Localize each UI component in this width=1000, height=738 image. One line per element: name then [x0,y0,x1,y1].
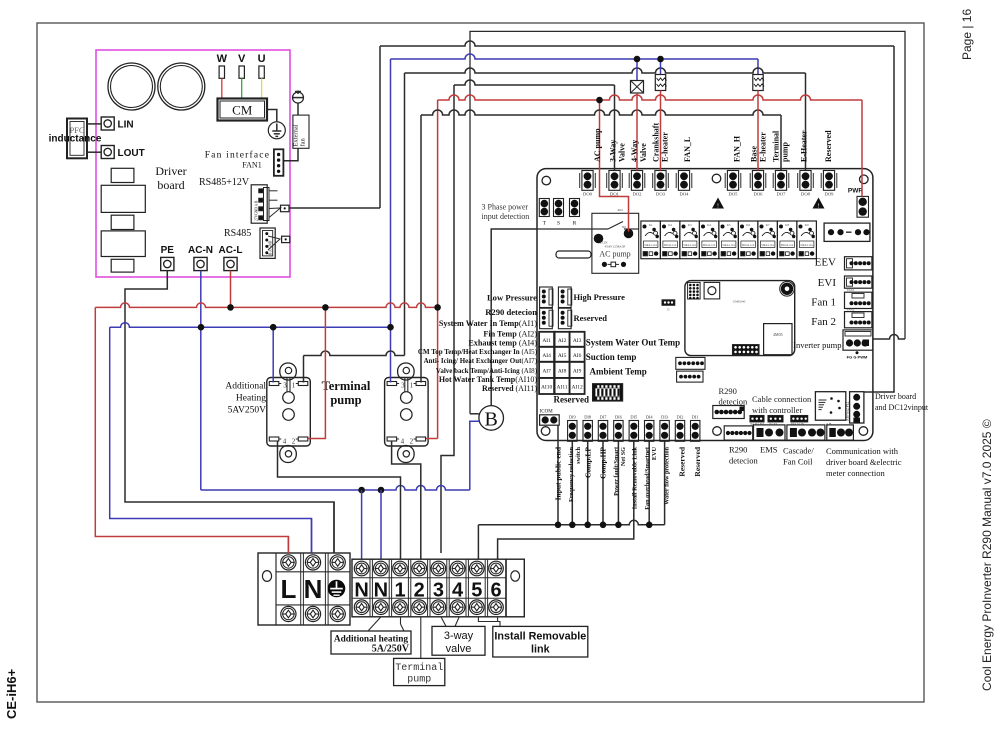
svg-text:U: U [258,53,266,65]
svg-text:K2: K2 [668,223,672,227]
svg-text:EVU: EVU [651,446,658,460]
wire blue into N [311,519,313,554]
live bus red [95,303,437,308]
heater coil base [753,75,763,91]
svg-text:Fan 2: Fan 2 [811,316,836,328]
svg-text:AI7: AI7 [542,368,551,374]
svg-text:Cool Energy ProInverter R290 M: Cool Energy ProInverter R290 Manual v7.0… [980,419,994,691]
solenoid valve symbol 4-way [631,81,644,94]
svg-text:driver board &electric: driver board &electric [826,457,902,467]
svg-text:Fan overhead/Smartnet: Fan overhead/Smartnet [644,446,651,510]
svg-text:AI3: AI3 [573,338,582,344]
svg-text:MRA4-12A: MRA4-12A [742,244,755,247]
Fan 2 connector [845,312,872,328]
ground symbol G1 [268,122,285,139]
EEV connector [845,257,872,270]
terminal L [281,555,296,570]
wire L3 blue valve feed [390,59,392,383]
svg-text:DO2: DO2 [633,192,643,197]
wire inverter pump link [873,335,905,340]
inverter pump connector [843,330,873,350]
svg-text:N: N [304,574,323,604]
svg-text:Terminal: Terminal [395,662,443,674]
EMS small connector [724,426,753,440]
svg-text:EEV: EEV [815,257,836,269]
svg-text:DI8: DI8 [584,415,592,420]
fan interface connector FAN1 [274,149,284,176]
fuse W [219,66,224,78]
svg-text:Inverter pump: Inverter pump [793,340,841,350]
leader line terminal pump [420,617,422,659]
leader lines install removable link [478,617,500,627]
wire node B to neutral blue [470,421,480,490]
R290 detection connector [540,308,553,329]
svg-text:Reserved: Reserved [554,395,590,405]
svg-text:Driver board: Driver board [875,392,916,401]
svg-text:EMS: EMS [760,445,778,455]
svg-text:Net SG: Net SG [620,447,627,466]
svg-text:Ambient Temp: Ambient Temp [590,367,647,377]
svg-text:Driver: Driver [155,164,186,178]
svg-text:LOUT: LOUT [118,148,145,159]
aux connector A2 [677,371,703,382]
wire L6 red live bus top [437,100,439,439]
svg-text:DI2: DI2 [677,415,684,420]
svg-text:switch: switch [575,446,582,463]
external fan earth screw symbol [293,92,304,103]
svg-text:MRA4-12A: MRA4-12A [781,244,794,247]
AI input terminal grid [539,332,554,347]
relay bank K1-K9 [641,221,661,259]
wire terminal pump pin4 to terminal 2 [392,441,421,559]
additional heating 5A/250V label box [331,631,411,654]
terminal LOUT [101,146,114,159]
fuse U [259,66,264,78]
MCU module box [685,281,795,356]
svg-text:meter connection: meter connection [826,468,886,478]
svg-text:4: 4 [283,438,287,446]
svg-text:1: 1 [292,382,296,390]
wire black into earth [333,502,335,553]
svg-text:AI1: AI1 [542,338,551,344]
svg-text:AI11: AI11 [557,384,568,390]
warning triangle 2 [813,198,825,209]
junction dots top bundle [634,56,641,63]
RS485 connector J2 [260,228,275,258]
compressor module CM [218,99,268,121]
svg-text:DI4: DI4 [646,415,654,420]
3-way valve label box [432,626,485,655]
wire N2 terminal blue [380,490,382,559]
svg-text:B: B [485,409,498,431]
MCU header 2x6 [733,345,760,355]
wire red into L [287,537,289,554]
svg-text:link: link [531,644,551,656]
svg-text:CM Top Temp/Heat Exchanger In: CM Top Temp/Heat Exchanger In (AI5) [418,348,538,356]
wire earth screw to external fan box [297,103,299,115]
svg-text:detecion: detecion [729,456,759,466]
svg-text:FAN_H: FAN_H [733,135,742,162]
svg-text:FAN1: FAN1 [847,288,855,292]
EVI connector [845,276,872,288]
tiny header H1 [750,415,764,422]
svg-text:K5: K5 [727,223,731,227]
wire base heater to DO6 red [757,91,759,171]
wire red to additional heating pin2 [308,307,325,438]
svg-text:Hot Water Tank Temp(AI10): Hot Water Tank Temp(AI10) [439,375,538,384]
install removable link wire to terminal 6 [498,441,634,559]
svg-text:Reserved: Reserved [574,313,608,323]
svg-text:2: 2 [410,438,414,446]
terminal block right end cap [506,559,524,617]
svg-text:Reserved: Reserved [824,130,833,162]
leader lines additional heating [368,617,381,631]
svg-text:Install Removable: Install Removable [494,631,586,643]
low voltage terminal block N N 1-6 [352,559,506,617]
svg-text:DO5: DO5 [729,192,739,197]
svg-text:EVI: EVI [818,277,837,289]
svg-text:MRA4-12A: MRA4-12A [800,244,813,247]
PWR connector [857,196,869,217]
svg-text:K9: K9 [805,223,809,227]
svg-text:Terminal: Terminal [772,130,781,162]
svg-text:4: 4 [401,438,405,446]
svg-text:AI6: AI6 [573,353,582,359]
svg-text:Cable connection: Cable connection [752,394,812,404]
svg-text:ICOM: ICOM [540,410,554,415]
svg-text:Comp.HP: Comp.HP [599,447,608,479]
EMS connector [754,425,786,440]
DI common bus to terminal 5 [664,441,666,525]
capacitor C1 [108,63,155,110]
svg-text:Additional: Additional [225,382,266,392]
svg-text:input detection: input detection [482,212,530,221]
svg-text:Valve: Valve [618,143,627,162]
svg-text:R: R [573,221,577,227]
heater coil crankshaft [655,75,665,91]
svg-text:5A/250V: 5A/250V [372,644,410,655]
RJ45 controller socket [815,392,845,421]
wire CM to ground [267,110,277,122]
svg-text:Input public end: Input public end [554,446,563,500]
svg-text:R290 detecion: R290 detecion [485,307,537,317]
cascade fan coil connector [787,425,825,440]
relay supply connector [824,223,870,241]
svg-text:Terminal: Terminal [322,379,371,393]
svg-text:AI8: AI8 [558,368,567,374]
svg-text:Install Removable Link: Install Removable Link [632,446,639,509]
svg-text:MRA4-12A: MRA4-12A [644,244,657,247]
svg-text:AC-N: AC-N [188,245,213,256]
neutral bus blue lower [201,486,470,490]
svg-text:AC pump: AC pump [593,128,602,162]
wire 4-way valve drop blue [636,59,638,81]
tiny header H2 [768,415,783,422]
3 phase input connector T [539,199,549,217]
wire L4 black E-heater to thermostat pin1 [303,356,305,383]
svg-text:AI9: AI9 [573,368,582,374]
thermostat terminal pump [398,363,415,380]
wire W to CM red [221,78,223,99]
svg-text:Low Pressure: Low Pressure [487,293,537,303]
svg-text:Fan 1: Fan 1 [811,297,836,309]
svg-text:FAN2: FAN2 [847,308,855,312]
wire neutral bus to N terminal [110,327,312,553]
AC pump switch [537,228,608,230]
svg-text:AI2: AI2 [558,338,567,344]
wire L5 black 3-way valve [441,85,454,553]
capacitor strip [556,251,591,258]
fuse V [239,66,244,78]
svg-text:RS485: RS485 [224,228,251,239]
svg-text:2: 2 [414,580,425,602]
svg-text:N: N [354,580,368,602]
svg-text:K6: K6 [746,223,750,227]
wire live bus to L terminal [95,307,288,553]
MCU buzzer [781,283,793,295]
RS485 out square [282,236,290,242]
svg-text:S: S [557,221,560,227]
svg-text:!: ! [818,204,820,210]
svg-text:Page | 16: Page | 16 [960,9,974,60]
terminal LIN [101,117,114,130]
transformer stack [111,168,134,182]
DIP switch [593,384,623,401]
svg-text:MRA4-12A: MRA4-12A [683,244,696,247]
svg-text:DI9: DI9 [569,415,577,420]
tiny header H3 [791,415,808,422]
svg-text:1: 1 [410,382,414,390]
svg-text:inductance: inductance [49,134,102,145]
svg-text:R290: R290 [729,445,747,455]
wire AC-N blue [200,271,202,490]
wire red AC pump feed [600,100,629,232]
svg-text:!: ! [717,204,719,210]
svg-text:R290: R290 [719,386,737,396]
AC pump indicator parts [602,262,607,267]
terminal earth [324,553,326,625]
node B junction [479,406,504,431]
svg-text:404: 404 [617,208,623,212]
R290 detection connector J6 [713,406,744,419]
capacitor C2 [158,63,205,110]
wire PE to earth terminal [125,271,334,553]
svg-text:and DC12vinput: and DC12vinput [875,403,929,412]
svg-text:K8: K8 [785,223,789,227]
wire L7 black terminal pump [420,115,422,383]
svg-text:AC-L: AC-L [219,245,243,256]
svg-text:AI10: AI10 [541,384,553,390]
svg-text:DI3: DI3 [661,415,669,420]
svg-text:DO3: DO3 [656,192,666,197]
driver board input connector A B G12 P12 [850,392,864,423]
wire V to CM green [241,78,243,99]
svg-text:3 Phase power: 3 Phase power [482,203,529,212]
svg-text:Fan Coil: Fan Coil [783,457,813,467]
svg-text:FAN1: FAN1 [242,161,261,170]
svg-text:valve: valve [446,643,472,655]
wire U to CM yellow [261,78,263,99]
svg-text:Comp.LP: Comp.LP [584,447,593,478]
svg-text:1: 1 [394,580,405,602]
svg-text:DI1: DI1 [692,415,699,420]
low pressure connector [540,287,553,308]
neutral bus blue upper [110,323,391,328]
terminal N [305,555,320,570]
svg-text:DO8: DO8 [801,192,811,197]
svg-text:FAN_L: FAN_L [683,137,692,162]
3 phase input connector S [554,199,564,217]
RS485+12V connector J1 [251,185,267,223]
svg-text:CE-iH6+: CE-iH6+ [4,668,19,719]
svg-text:board: board [157,178,184,192]
wire L1 black B to inverter pump [470,31,905,413]
svg-text:pump: pump [330,393,361,407]
svg-text:DO4: DO4 [680,192,690,197]
svg-text:DI6: DI6 [615,415,623,420]
svg-text:45AV1258A5P: 45AV1258A5P [605,245,626,249]
thermostat additional heating [280,363,297,380]
reserved connector [558,308,571,329]
wire additional heating pin4 to terminal 1 [278,441,401,559]
svg-text:RS485+12V: RS485+12V [199,177,250,188]
wire crankshaft heater drop blue [660,59,662,75]
svg-text:pump: pump [407,675,431,686]
wire AC pump common to node B [491,229,537,406]
svg-text:E-Heater: E-Heater [800,130,809,162]
svg-text:FG G PWM: FG G PWM [847,355,868,360]
main control board outline [537,169,873,441]
svg-text:Exhaust temp (AI4): Exhaust temp (AI4) [468,339,537,348]
svg-text:Heating: Heating [236,394,266,404]
svg-text:MRA4-12A: MRA4-12A [722,244,735,247]
MCU relay box with circle [704,282,720,299]
svg-text:Power fault/Smart: Power fault/Smart [613,446,620,496]
svg-text:E-heater: E-heater [661,132,670,162]
aux connector A1 [676,357,705,369]
MCU pin grid [688,282,701,299]
svg-text:2: 2 [292,438,296,446]
terminal pump label box [394,658,445,685]
svg-text:K1: K1 [649,223,653,227]
wire PFC to LIN [87,123,101,125]
svg-text:System Water Out Temp: System Water Out Temp [586,338,680,348]
Fan 1 connector [845,292,872,308]
leader lines 3-way valve [441,617,446,627]
svg-text:MRA4-12A: MRA4-12A [664,244,677,247]
svg-text:L: L [280,574,296,604]
svg-text:with controller: with controller [752,405,802,415]
meter communication connector [827,425,854,440]
svg-text:5: 5 [471,580,482,602]
svg-text:PE: PE [161,245,175,256]
wire 4-way valve to DO2 red [636,93,638,171]
svg-text:High Pressure: High Pressure [574,292,626,302]
svg-text:Base: Base [750,146,759,162]
svg-text:MRA4-12A: MRA4-12A [703,244,716,247]
svg-text:A B G12 P12: A B G12 P12 [846,402,850,421]
DI bus junction dots [555,522,562,529]
svg-text:3: 3 [433,580,444,602]
svg-text:Fan interface: Fan interface [205,150,270,161]
svg-text:Fin Temp (AI2): Fin Temp (AI2) [483,330,537,339]
3 phase input connector R [570,199,580,217]
svg-text:LIN: LIN [118,120,134,131]
jumper J3 [662,300,675,306]
svg-text:pump: pump [781,141,790,162]
svg-text:Reserved (AI11): Reserved (AI11) [482,384,537,393]
svg-text:N0: N0 [622,225,626,229]
svg-text:DO7: DO7 [777,192,787,197]
mounting holes [542,176,551,185]
svg-text:Communication with: Communication with [826,446,899,456]
svg-text:AI5: AI5 [558,353,567,359]
DO output connectors DO0-DO9 [579,173,581,188]
svg-text:Frequency reduction: Frequency reduction [568,446,575,501]
wire crankshaft heater to DO3 red [660,91,662,171]
wire L2 black RS485+12V to DC12v input [289,207,380,209]
svg-text:V: V [238,53,246,65]
svg-text:External: External [293,124,300,146]
MCU 4M05 box [764,324,792,355]
junction dots mains buses [227,304,234,311]
svg-text:K3: K3 [688,223,692,227]
svg-text:MRA4-12A: MRA4-12A [761,244,774,247]
AC pump relay box [592,213,639,273]
svg-text:DO9: DO9 [825,192,835,197]
svg-text:Valve back Temp/Anti-Icing (AI: Valve back Temp/Anti-Icing (AI8) [436,367,538,375]
svg-text:Reserved: Reserved [693,446,702,476]
svg-text:GME640: GME640 [733,300,746,304]
svg-text:System Water In Temp(AI1): System Water In Temp(AI1) [439,319,537,328]
driver board outline [96,50,290,277]
svg-text:DI7: DI7 [600,415,608,420]
svg-text:K7: K7 [766,223,770,227]
svg-text:E-heater: E-heater [759,132,768,162]
PFC inductance box [67,119,87,159]
svg-text:N: N [374,580,388,602]
svg-text:W: W [217,53,228,65]
svg-text:AI4: AI4 [542,353,551,359]
wire blue to additional heating pin3 [272,327,274,382]
svg-text:3-Way: 3-Way [609,140,618,162]
svg-text:Suction temp: Suction temp [586,352,637,362]
wire AC-L red [230,271,232,308]
mains terminal block L N PE [258,553,350,625]
svg-text:27VGND A B: 27VGND A B [255,200,259,221]
high pressure connector [558,287,571,308]
svg-text:PWR: PWR [848,188,863,195]
svg-text:K4: K4 [707,223,711,227]
svg-text:Anti- Icing/ Heat Exchanger O: Anti- Icing/ Heat Exchanger Out(AI7) [424,357,538,365]
svg-text:J5: J5 [667,308,670,312]
DI drop wires [571,441,573,525]
svg-text:5AV250V: 5AV250V [228,406,266,416]
RS485+12V out square [281,205,290,212]
svg-text:DO0: DO0 [583,192,593,197]
svg-text:Cascade/: Cascade/ [783,446,814,456]
wire external fan to FAN1 [283,148,298,160]
svg-text:4: 4 [452,580,464,602]
svg-text:AI12: AI12 [571,384,583,390]
warning triangle 1 [712,198,724,209]
svg-text:Crankshaft: Crankshaft [652,123,661,162]
external fan box [293,115,309,148]
wire PFC to LOUT [87,151,101,153]
svg-text:Water flow protection: Water flow protection [664,446,671,504]
install removable link label box [493,626,588,657]
wire N1 terminal blue [361,490,363,559]
